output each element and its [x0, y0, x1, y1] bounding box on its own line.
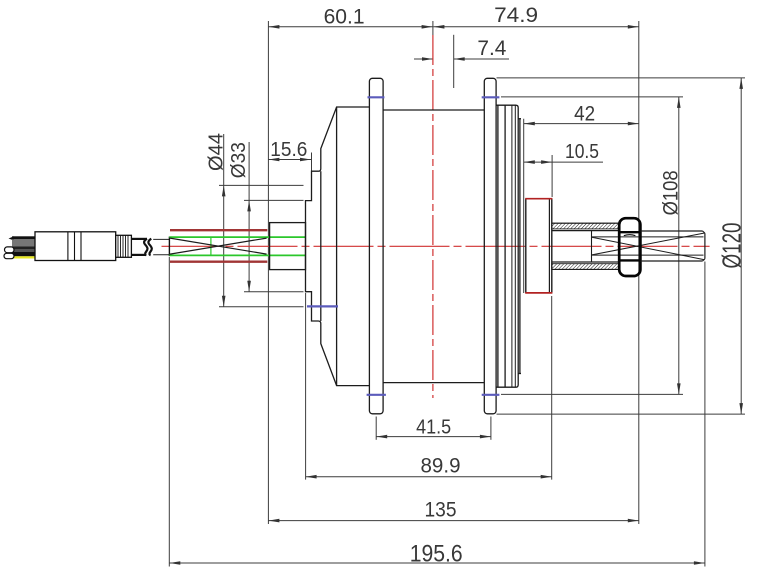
svg-text:74.9: 74.9 [494, 4, 538, 27]
svg-text:Ø44: Ø44 [205, 133, 227, 171]
svg-text:Ø108: Ø108 [659, 170, 683, 215]
svg-text:Ø33: Ø33 [228, 142, 250, 178]
svg-text:195.6: 195.6 [410, 541, 463, 568]
svg-text:60.1: 60.1 [324, 6, 365, 29]
svg-text:15.6: 15.6 [270, 138, 307, 161]
svg-text:Ø120: Ø120 [716, 223, 746, 269]
svg-text:10.5: 10.5 [565, 140, 599, 163]
svg-text:89.9: 89.9 [421, 455, 461, 478]
svg-text:7.4: 7.4 [477, 37, 506, 60]
svg-text:135: 135 [425, 499, 457, 522]
svg-text:41.5: 41.5 [416, 416, 451, 439]
svg-text:42: 42 [574, 103, 595, 126]
